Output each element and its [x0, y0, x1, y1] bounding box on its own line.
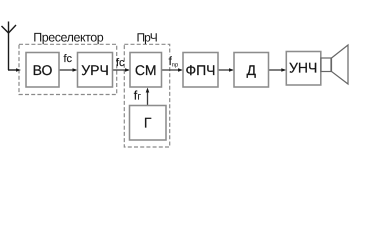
svg-text:fc: fc	[64, 53, 73, 65]
svg-text:ФПЧ: ФПЧ	[185, 62, 215, 78]
svg-text:ПрЧ: ПрЧ	[137, 31, 158, 45]
svg-text:УНЧ: УНЧ	[289, 60, 317, 76]
svg-text:г: г	[137, 92, 141, 103]
svg-text:пр: пр	[172, 62, 179, 68]
svg-text:Д: Д	[246, 62, 256, 78]
svg-text:fc: fc	[116, 57, 125, 69]
svg-text:ВО: ВО	[33, 62, 53, 78]
svg-text:Г: Г	[144, 115, 152, 131]
svg-text:Преселектор: Преселектор	[33, 30, 104, 44]
svg-text:СМ: СМ	[135, 62, 157, 78]
svg-text:УРЧ: УРЧ	[81, 62, 109, 78]
